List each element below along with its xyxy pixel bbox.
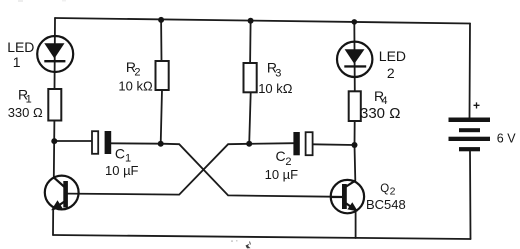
svg-text:2: 2 [134,66,140,78]
svg-text:C: C [115,146,125,162]
svg-text:2: 2 [387,65,395,81]
svg-text:1: 1 [26,94,32,106]
svg-text:330 Ω: 330 Ω [8,105,43,120]
svg-text:2: 2 [390,186,396,198]
svg-text:LED: LED [379,48,406,64]
svg-text:10 kΩ: 10 kΩ [258,81,293,96]
svg-text:1: 1 [13,54,21,70]
svg-text:+: + [473,99,480,113]
svg-text:10 µF: 10 µF [265,167,299,182]
svg-text:BC548: BC548 [366,197,406,212]
svg-text:C: C [276,148,286,164]
svg-text:3: 3 [275,68,281,80]
svg-text:6 V: 6 V [497,131,516,145]
svg-text:Q: Q [380,183,389,195]
svg-text:10 µF: 10 µF [105,163,139,178]
svg-text:10 kΩ: 10 kΩ [118,79,153,94]
svg-text:330 Ω: 330 Ω [360,105,400,122]
svg-text:LED: LED [7,39,34,55]
